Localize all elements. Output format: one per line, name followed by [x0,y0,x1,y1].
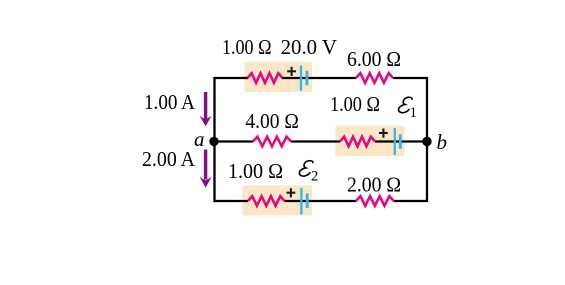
svg-text:6.00 Ω: 6.00 Ω [347,47,401,71]
svg-text:1.00 Ω: 1.00 Ω [228,159,283,183]
resistor 1.00 Ω (bottom branch) [248,196,285,206]
wire: middle branch EMF1 battery to node b [375,140,427,142]
plus sign (20.0 V battery polarity) [287,67,296,76]
battery EMF2 : short plate [306,194,309,209]
highlight box (1.00 Ω + 20.0 V battery, top branch) [245,62,313,92]
wire: middle branch 4.00Ω to 1.00Ω [291,140,340,142]
current arrow 1.00 A (downward, purple) [200,92,212,126]
wire: top branch left segment (corner to R 1.00Ω) [215,78,249,142]
battery 20.0 V : short plate [305,71,308,85]
svg-text:1.00 A: 1.00 A [144,90,196,114]
svg-text:1: 1 [410,105,417,121]
node a (junction dot) [209,137,218,146]
svg-text:1.00 Ω: 1.00 Ω [330,92,380,116]
wire: bottom branch right segment (2.00Ω up to node b) [394,142,427,202]
battery EMF1 : long plate [394,128,396,155]
plus sign (EMF1 polarity) [379,129,388,138]
battery EMF2 : long plate [300,188,302,215]
svg-text:20.0 V: 20.0 V [281,35,337,59]
wire: middle branch a to 4.00Ω [215,140,254,142]
svg-text:a: a [194,127,205,151]
label EMF1 (script E with subscript 1) [398,97,416,121]
svg-text:4.00 Ω: 4.00 Ω [245,109,299,133]
resistor 1.00 Ω (middle branch) [340,137,375,147]
highlight box (1.00 Ω + EMF2 battery, bottom branch) [243,186,313,216]
resistor 4.00 Ω (middle branch) [253,137,291,147]
resistor 2.00 Ω (bottom branch) [356,196,394,206]
svg-text:2: 2 [311,169,318,185]
label EMF2 (script E with subscript 2) [299,161,318,185]
wire: top branch right segment (6.00Ω to right corner down to b) [393,78,427,142]
current arrow 2.00 A (downward, purple) [200,150,212,188]
highlight box (1.00 Ω + EMF1 battery, middle branch) [335,126,404,156]
svg-text:b: b [437,130,448,154]
svg-text:2.00 A: 2.00 A [142,147,196,171]
wire: top branch, battery to 6.00Ω resistor [282,77,356,79]
svg-text:1.00 Ω: 1.00 Ω [222,35,272,59]
wire: bottom branch EMF2 battery to 2.00Ω [285,200,356,202]
resistor 1.00 Ω (top branch) [248,73,283,83]
battery 20.0 V : long plate [300,66,302,91]
node b (junction dot) [422,137,431,146]
plus sign (EMF2 polarity) [287,188,296,197]
svg-text:2.00 Ω: 2.00 Ω [347,173,401,197]
wire: bottom branch left segment (a down to bottom, to 1.00Ω) [215,142,249,202]
resistor 6.00 Ω (top branch) [356,73,393,83]
battery EMF1 : short plate [399,134,402,149]
